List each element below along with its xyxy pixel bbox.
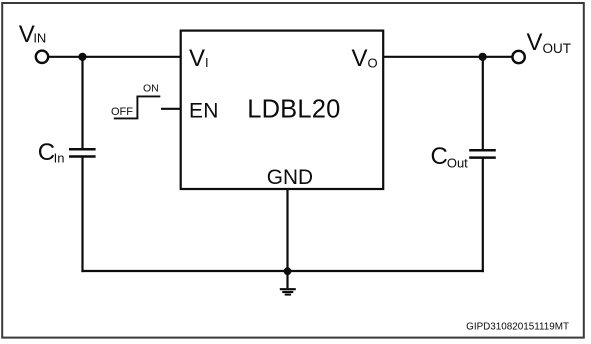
svg-text:EN: EN	[189, 99, 219, 122]
wire: CIn down to ground rail	[81, 157, 83, 273]
svg-text:GIPD310820151119MT: GIPD310820151119MT	[466, 322, 569, 333]
wire: input junction down to CIn	[81, 57, 83, 150]
node: ground junction	[284, 267, 292, 275]
wire: output junction down to COut	[482, 57, 484, 150]
wire: EN pin stub	[161, 108, 181, 110]
svg-text:OFF: OFF	[111, 106, 133, 118]
ground	[280, 289, 296, 294]
wire: bottom ground rail	[81, 270, 484, 272]
wire: GND pin down to rail	[286, 189, 288, 271]
waveform ON/OFF step	[114, 96, 161, 118]
wire: VO pin to VOUT terminal	[383, 56, 512, 58]
wire: COut down to ground rail	[482, 158, 484, 273]
terminal VIN	[36, 51, 48, 63]
op-amp/regulator box U1 LDBL20	[181, 31, 384, 189]
node: output junction	[479, 53, 487, 61]
svg-text:ON: ON	[143, 82, 159, 94]
node: input junction	[78, 53, 86, 61]
terminal VOUT	[512, 51, 524, 63]
wire: VIN terminal to VI pin	[49, 56, 182, 58]
wire: stub to ground symbol	[286, 271, 288, 288]
capacitor COut	[469, 150, 496, 157]
capacitor CIn	[69, 149, 96, 156]
svg-text:GND: GND	[267, 166, 313, 189]
svg-text:LDBL20: LDBL20	[247, 95, 340, 123]
